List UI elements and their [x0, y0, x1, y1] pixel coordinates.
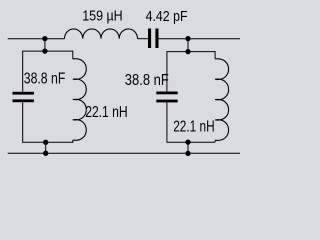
svg-text:22.1 nH: 22.1 nH	[85, 104, 128, 121]
junction dot top rail right	[185, 36, 190, 41]
wire left branch bottom sub-wire	[23, 141, 73, 143]
wire L2 upper lead	[72, 51, 74, 59]
wire left branch top sub-wire	[23, 50, 73, 52]
wire L2 lower lead	[72, 140, 74, 143]
junction dot bottom rail right	[185, 151, 190, 156]
wire L3 lower lead	[214, 140, 216, 142]
inductor L2 22.1 nH (left shunt)	[73, 59, 87, 141]
capacitor C1 38.8 nF (left shunt)	[13, 92, 34, 102]
junction dot right branch bottom	[185, 139, 190, 144]
wire bottom rail	[8, 152, 240, 154]
wire L1 to C2	[138, 38, 149, 40]
inductor L3 22.1 nH (right shunt)	[215, 59, 229, 141]
svg-text:4.42 pF: 4.42 pF	[146, 8, 188, 25]
svg-text:159 µH: 159 µH	[82, 8, 123, 24]
node stub bottom-left	[45, 142, 47, 153]
svg-text:38.8 nF: 38.8 nF	[125, 72, 169, 89]
wire C1 lower lead	[22, 102, 24, 143]
junction dot left branch top	[42, 48, 47, 53]
svg-text:22.1 nH: 22.1 nH	[173, 119, 215, 136]
node stub top-left	[44, 39, 46, 51]
junction dot bottom rail left	[43, 151, 48, 156]
wire C1 upper lead	[22, 51, 24, 92]
node stub top-right	[187, 39, 189, 52]
wire C3 lower lead	[166, 102, 168, 142]
inductor L1 159 uH (series, top)	[65, 29, 138, 39]
junction dot left branch bottom	[43, 140, 48, 145]
wire L3 upper lead	[214, 51, 216, 59]
capacitor C2 4.42 pF (series, top)	[148, 29, 159, 49]
wire C3 upper lead	[166, 51, 168, 91]
capacitor C3 38.8 nF (right shunt)	[156, 92, 177, 103]
wire right branch bottom sub-wire	[167, 141, 215, 143]
wire right branch top sub-wire	[167, 51, 215, 53]
junction dot top rail left	[42, 36, 47, 41]
junction dot right branch top	[185, 49, 190, 54]
wire top rail left segment	[8, 38, 65, 40]
svg-text:38.8 nF: 38.8 nF	[24, 71, 66, 88]
node stub bottom-right	[187, 142, 189, 153]
wire C2 to right end of top rail	[159, 38, 241, 40]
